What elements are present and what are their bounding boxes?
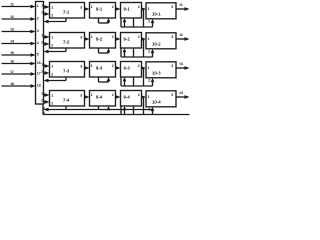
svg-text:1: 1 bbox=[37, 4, 39, 8]
svg-text:t6: t6 bbox=[11, 59, 14, 63]
svg-text:2: 2 bbox=[148, 20, 150, 24]
svg-text:1: 1 bbox=[41, 4, 43, 8]
svg-text:2: 2 bbox=[51, 101, 53, 105]
svg-text:10-2: 10-2 bbox=[152, 42, 161, 47]
svg-text:t7: t7 bbox=[11, 70, 14, 74]
flip-flop 8-4 bbox=[90, 91, 116, 107]
svg-text:1: 1 bbox=[91, 35, 93, 39]
feedback drop 8-4 bbox=[98, 106, 100, 110]
flip-flop 7-4 bbox=[50, 91, 85, 107]
wire box6 to 7-1 pin1 bbox=[44, 6, 47, 8]
svg-text:2: 2 bbox=[112, 64, 114, 68]
svg-text:7-1: 7-1 bbox=[63, 10, 70, 15]
wire 7-1 to 8-1 bbox=[85, 8, 87, 10]
feedback wire 7-3 to box 6 bbox=[47, 80, 67, 82]
svg-text:t5: t5 bbox=[11, 51, 14, 55]
svg-text:2: 2 bbox=[41, 11, 43, 15]
wire 9-4 to 10-4 bbox=[142, 96, 144, 98]
svg-text:t2: t2 bbox=[11, 15, 14, 19]
svg-text:3: 3 bbox=[171, 5, 173, 9]
output wire t4 bbox=[176, 96, 186, 98]
bus line A bbox=[48, 109, 153, 111]
svg-text:1: 1 bbox=[91, 64, 93, 68]
svg-text:1: 1 bbox=[51, 36, 53, 40]
flip-flop 7-2 bbox=[50, 33, 85, 49]
svg-text:t1: t1 bbox=[180, 3, 183, 7]
feedback arrow into 8-4 bbox=[108, 108, 110, 111]
feedback drop 10-4 bbox=[143, 97, 145, 115]
svg-text:16: 16 bbox=[37, 61, 41, 65]
svg-text:2: 2 bbox=[112, 35, 114, 39]
output wire t3 bbox=[176, 67, 186, 69]
wire 8-4 to 9-4 bbox=[116, 96, 118, 98]
wire 7-4 to 8-4 bbox=[85, 96, 87, 98]
wire 8-1 to 9-1 bbox=[116, 8, 118, 10]
flip-flop 10-1 bbox=[146, 3, 176, 19]
svg-text:2: 2 bbox=[51, 72, 53, 76]
flip-flop 7-3 bbox=[50, 62, 85, 78]
flip-flop 9-2 bbox=[121, 33, 142, 49]
svg-text:t8: t8 bbox=[11, 82, 14, 86]
svg-text:3: 3 bbox=[171, 35, 173, 39]
svg-text:1: 1 bbox=[41, 63, 43, 67]
svg-text:1: 1 bbox=[148, 37, 150, 41]
svg-text:3: 3 bbox=[80, 6, 82, 10]
flip-flop 8-3 bbox=[90, 62, 116, 78]
input line t3 bbox=[2, 31, 33, 33]
wire box6 to 7-4 pin2 bbox=[44, 101, 47, 103]
svg-text:1: 1 bbox=[91, 93, 93, 97]
svg-text:1: 1 bbox=[51, 6, 53, 10]
svg-text:8-1: 8-1 bbox=[96, 6, 103, 11]
svg-text:t1: t1 bbox=[11, 2, 14, 6]
wire 9-1 to 10-1 bbox=[142, 8, 144, 10]
svg-text:9-3: 9-3 bbox=[124, 65, 131, 70]
input line t8 bbox=[2, 85, 33, 87]
svg-text:1: 1 bbox=[91, 5, 93, 9]
input line t4 bbox=[2, 43, 33, 45]
feedback drop 9-4 right bbox=[133, 106, 135, 115]
feedback arrow into 9-4 bbox=[124, 110, 126, 115]
svg-text:3: 3 bbox=[171, 64, 173, 68]
svg-text:2: 2 bbox=[41, 99, 43, 103]
svg-text:2: 2 bbox=[112, 5, 114, 9]
svg-text:9-1: 9-1 bbox=[124, 6, 131, 11]
flip-flop 9-4 bbox=[121, 91, 142, 107]
flip-flop 8-1 bbox=[90, 3, 116, 19]
svg-text:2: 2 bbox=[138, 5, 140, 9]
svg-text:t2: t2 bbox=[180, 33, 183, 37]
wire 9-2 to 10-2 bbox=[142, 38, 144, 40]
svg-text:1: 1 bbox=[148, 7, 150, 11]
feedback loop under 8-1 bbox=[98, 18, 100, 23]
feedback loop under 9-3 and 10-3 bbox=[120, 77, 122, 86]
svg-text:2: 2 bbox=[148, 79, 150, 83]
wire box6 to 7-2 pin1 bbox=[44, 36, 47, 38]
svg-text:2: 2 bbox=[148, 50, 150, 54]
svg-text:2: 2 bbox=[37, 17, 39, 21]
feedback wire 7-2 to box 6 bbox=[47, 51, 67, 53]
svg-text:9-2: 9-2 bbox=[124, 36, 131, 41]
svg-text:9-4: 9-4 bbox=[124, 94, 131, 99]
svg-text:t3: t3 bbox=[180, 62, 183, 66]
flip-flop 10-4 bbox=[146, 91, 176, 107]
svg-text:7-4: 7-4 bbox=[63, 98, 70, 103]
svg-text:10-3: 10-3 bbox=[152, 71, 161, 76]
wire 7-3 to 8-3 bbox=[85, 67, 87, 69]
feedback drop 9-4 bbox=[120, 106, 122, 115]
svg-text:18: 18 bbox=[37, 84, 41, 88]
svg-text:2: 2 bbox=[41, 41, 43, 45]
svg-text:2: 2 bbox=[138, 93, 140, 97]
flip-flop 8-2 bbox=[90, 33, 116, 49]
svg-text:4: 4 bbox=[37, 41, 39, 45]
svg-text:5: 5 bbox=[37, 53, 39, 57]
input line t7 bbox=[2, 73, 33, 75]
svg-text:7-3: 7-3 bbox=[63, 69, 70, 74]
svg-text:17: 17 bbox=[37, 72, 41, 76]
svg-text:t3: t3 bbox=[11, 27, 14, 31]
svg-text:1: 1 bbox=[41, 34, 43, 38]
wire box6 to 7-3 pin1 bbox=[44, 65, 47, 67]
svg-text:2: 2 bbox=[138, 35, 140, 39]
svg-text:1: 1 bbox=[41, 92, 43, 96]
feedback loop under 8-2 bbox=[98, 48, 100, 53]
svg-text:3: 3 bbox=[171, 93, 173, 97]
feedback wire 7-1 to box 6 bbox=[47, 21, 67, 23]
svg-text:1: 1 bbox=[51, 94, 53, 98]
svg-text:1: 1 bbox=[148, 66, 150, 70]
svg-text:3: 3 bbox=[80, 65, 82, 69]
wire 8-2 to 9-2 bbox=[116, 38, 118, 40]
input line t5 bbox=[2, 54, 33, 56]
wire box6 to 7-4 pin1 bbox=[44, 94, 47, 96]
input line t2 bbox=[2, 18, 33, 20]
feedback loop under 9-2 and 10-2 bbox=[120, 48, 122, 57]
svg-text:3: 3 bbox=[80, 36, 82, 40]
svg-text:1: 1 bbox=[51, 65, 53, 69]
wire 8-3 to 9-3 bbox=[116, 67, 118, 69]
wire box6 to 7-1 pin2 bbox=[44, 13, 47, 15]
input line t6 bbox=[2, 63, 33, 65]
wire 9-3 to 10-3 bbox=[142, 67, 144, 69]
output wire t1 bbox=[176, 8, 186, 10]
flip-flop 10-2 bbox=[146, 33, 176, 49]
distributor box 6 bbox=[36, 2, 44, 105]
flip-flop 7-1 bbox=[50, 3, 85, 19]
feedback loop under 9-1 and 10-1 bbox=[120, 18, 122, 27]
bus line B bbox=[43, 114, 190, 116]
flip-flop 9-3 bbox=[121, 62, 142, 78]
feedback arrow into 10-4 bbox=[152, 111, 154, 115]
flip-flop 10-3 bbox=[146, 62, 176, 78]
stub box6 bottom to buses bbox=[42, 104, 44, 115]
svg-text:8-2: 8-2 bbox=[96, 36, 103, 41]
svg-text:10-1: 10-1 bbox=[152, 12, 161, 17]
feedback loop under 8-3 bbox=[98, 77, 100, 82]
feedback wire 7-4 to box 6 via bus bbox=[65, 106, 67, 110]
svg-text:8-3: 8-3 bbox=[96, 65, 103, 70]
flip-flop 9-1 bbox=[121, 3, 142, 19]
svg-text:1: 1 bbox=[148, 95, 150, 99]
output wire t2 bbox=[176, 38, 186, 40]
wire box6 to 7-3 pin2 bbox=[44, 72, 47, 74]
svg-text:3: 3 bbox=[37, 29, 39, 33]
svg-text:2: 2 bbox=[112, 93, 114, 97]
wire 7-2 to 8-2 bbox=[85, 38, 87, 40]
svg-text:2: 2 bbox=[51, 13, 53, 17]
svg-text:3: 3 bbox=[80, 94, 82, 98]
svg-text:8-4: 8-4 bbox=[96, 94, 103, 99]
svg-text:7-2: 7-2 bbox=[63, 40, 70, 45]
svg-text:2: 2 bbox=[51, 43, 53, 47]
wire box6 to 7-2 pin2 bbox=[44, 43, 47, 45]
svg-text:10-4: 10-4 bbox=[152, 100, 161, 105]
svg-text:2: 2 bbox=[41, 70, 43, 74]
svg-text:2: 2 bbox=[138, 64, 140, 68]
input line t1 bbox=[2, 6, 33, 8]
